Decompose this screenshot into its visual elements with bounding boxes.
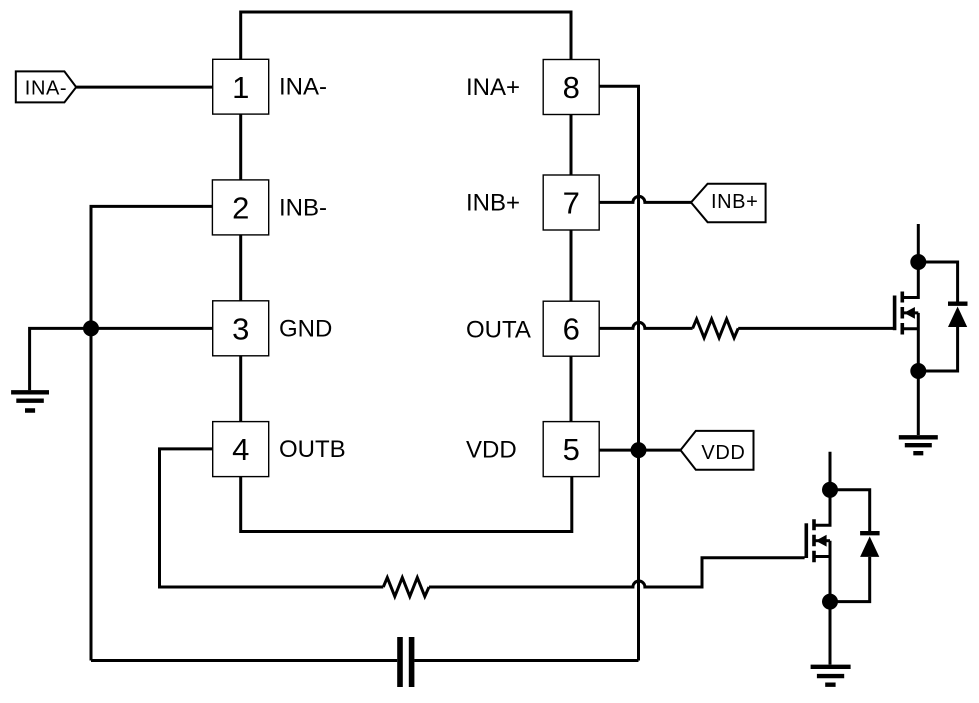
- ground (Q1 source): [899, 437, 938, 453]
- transistor Q1 (upper NMOS) drain stub and drain: [902, 224, 918, 298]
- svg-text:OUTA: OUTA: [466, 316, 531, 343]
- transistor Q1 channel bars: [900, 292, 904, 335]
- wire capacitor right segment: [414, 659, 638, 662]
- node dot Q1 source: [910, 363, 926, 379]
- node dot Q2 source: [822, 594, 838, 610]
- node dot Q2 drain: [822, 482, 838, 498]
- wire R1 to Q1 gate: [738, 327, 893, 330]
- svg-text:2: 2: [232, 190, 249, 225]
- body diode D2 cathode bar: [860, 531, 880, 535]
- svg-text:1: 1: [232, 70, 249, 105]
- transistor Q2 gate bar: [804, 523, 808, 558]
- wire stub pin1-pin2: [239, 114, 242, 180]
- svg-text:7: 7: [563, 186, 580, 221]
- wire stub pin3-pin4: [239, 356, 242, 422]
- svg-text:6: 6: [563, 312, 580, 347]
- pin 3 box: [213, 301, 269, 356]
- net flag INA- (input, points right): [16, 71, 76, 102]
- pin 1 box: [213, 59, 269, 114]
- wire pin5 to VDD flag: [599, 449, 680, 452]
- node junction dot pin3/GND net: [83, 320, 99, 336]
- wire pin3 GND net to left ground: [30, 328, 213, 390]
- body diode D1 wires: [918, 262, 957, 371]
- transistor Q1 source bar and source wire to ground: [902, 313, 918, 435]
- pin 6 box: [543, 301, 599, 356]
- wire IC top outline (pin1 top to pin8 top): [241, 12, 571, 60]
- net flag VDD (points left): [681, 431, 754, 470]
- wire capacitor left segment: [91, 659, 397, 662]
- pin 2 box: [212, 180, 268, 235]
- svg-text:VDD: VDD: [466, 436, 517, 463]
- pin 7 box: [543, 175, 599, 230]
- transistor Q2 channel bars: [812, 519, 816, 562]
- wire pin4 OUTB net to resistor R2: [160, 449, 384, 587]
- wire stub pin7-pin6: [570, 230, 573, 301]
- node junction dot pin5/VDD net: [631, 442, 647, 458]
- svg-text:INB+: INB+: [466, 189, 520, 216]
- wire stub pin6-pin5: [570, 356, 573, 421]
- net flag INB+ (points left): [691, 184, 766, 223]
- capacitor C1 plates: [400, 637, 412, 687]
- svg-text:3: 3: [232, 311, 249, 346]
- svg-text:5: 5: [563, 432, 580, 467]
- ground (Q2 source): [811, 667, 851, 685]
- transistor Q1 body connection with arrow: [902, 311, 918, 314]
- transistor Q2 body connection with arrow: [814, 539, 830, 542]
- svg-text:OUTB: OUTB: [279, 436, 346, 463]
- transistor Q1 gate bar: [893, 296, 897, 331]
- resistor R2 (OUTB series gate resistor): [383, 578, 429, 597]
- wire stub pin8-pin7: [570, 115, 573, 176]
- svg-text:VDD: VDD: [701, 442, 745, 464]
- svg-text:INA-: INA-: [25, 78, 67, 100]
- wire pin2 INB- net (left, down to capacitor wire): [91, 206, 212, 660]
- wire R2 to Q2 gate (hop over vertical wire): [429, 558, 805, 587]
- svg-text:GND: GND: [279, 316, 332, 343]
- wire pin7 to INB+ flag (hop over vertical wire): [600, 196, 691, 202]
- ground (left, GND net): [11, 392, 49, 410]
- resistor R1 (OUTA series gate resistor): [693, 319, 739, 338]
- svg-text:INB+: INB+: [711, 191, 758, 213]
- wire IC bottom outline (pin4 bottom to pin5 bottom): [241, 477, 572, 532]
- svg-text:INB-: INB-: [279, 194, 327, 221]
- body diode D1 cathode bar: [948, 302, 968, 306]
- node dot Q1 drain: [910, 254, 926, 270]
- pin 5 box: [543, 422, 599, 477]
- svg-text:4: 4: [232, 432, 249, 467]
- body diode D1 triangle: [948, 307, 967, 328]
- svg-text:8: 8: [563, 70, 580, 105]
- pin 4 box: [213, 422, 269, 477]
- svg-text:INA-: INA-: [279, 74, 327, 101]
- body diode D2 wires: [830, 490, 870, 602]
- transistor Q2 (lower NMOS) drain stub and drain: [814, 452, 830, 526]
- wire INA- flag to pin 1: [76, 86, 213, 89]
- wire pin6 OUTA net to resistor R1 (hop over vertical wire): [599, 322, 692, 328]
- body diode D2 triangle: [860, 536, 879, 557]
- transistor Q2 source bar and source wire to ground: [814, 541, 830, 665]
- wire stub pin2-pin3: [239, 235, 242, 301]
- svg-text:INA+: INA+: [466, 74, 520, 101]
- wire pin8 INA+ net (right, down to capacitor wire): [599, 86, 638, 660]
- pin 8 box: [543, 60, 599, 115]
